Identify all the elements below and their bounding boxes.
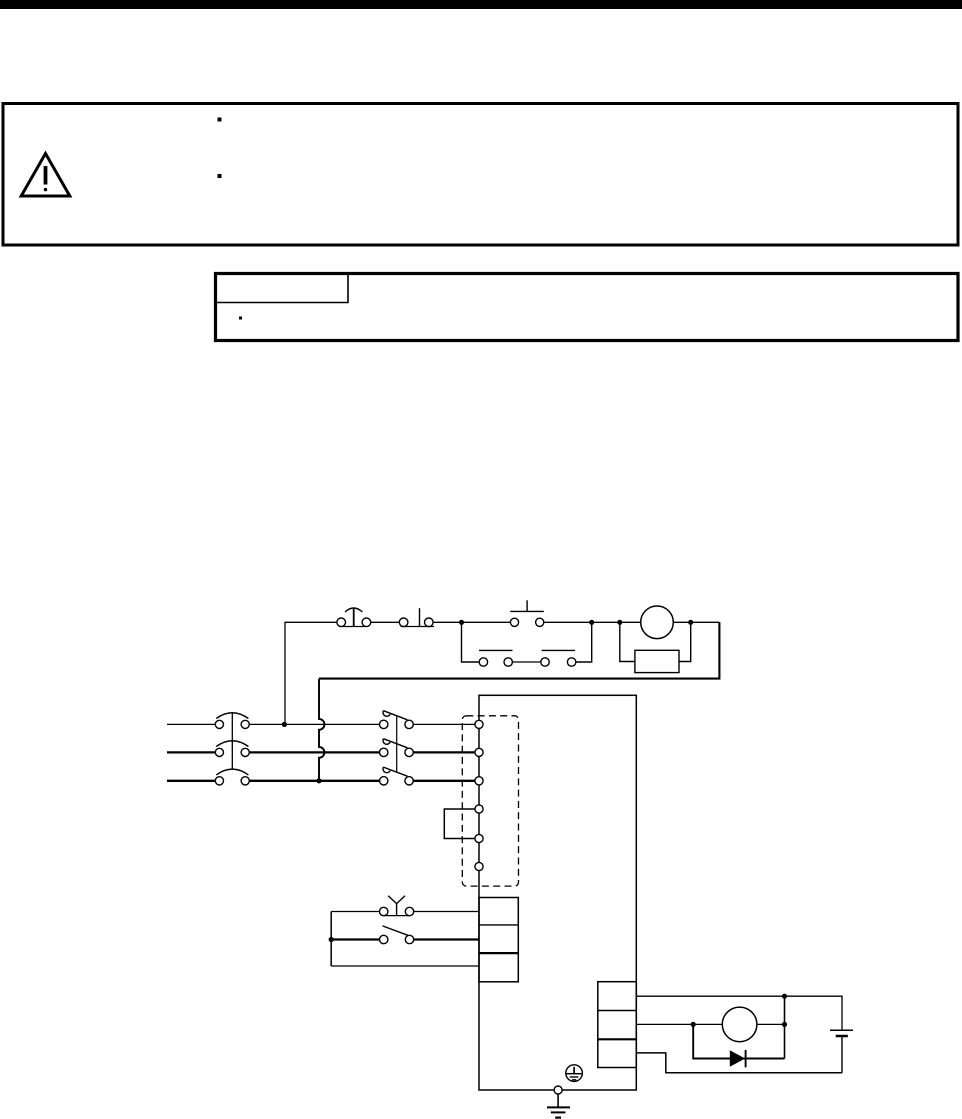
PE symbol [566, 1065, 583, 1082]
surge absorber box [635, 650, 679, 672]
wire: right junction vertical [784, 996, 786, 1058]
switch forced stop (NC with twist-release Y) [331, 896, 479, 916]
pushbutton SW3 ON (NO) [510, 600, 544, 626]
node: L3 / return junction [316, 778, 321, 783]
node: motor right junction [782, 1022, 787, 1027]
warning triangle icon [21, 154, 70, 197]
terminal D [475, 834, 483, 842]
warning bullet 2 [218, 174, 222, 178]
POINT label box [216, 274, 348, 303]
switch EMG (NO) [331, 926, 479, 944]
circuit breaker NFB pole 1 [215, 713, 249, 729]
wire [757, 1023, 785, 1025]
wire: to surge absorber right [679, 622, 691, 661]
servo amplifier box [479, 695, 636, 1090]
phase line L1 [167, 723, 215, 725]
brake motor B [722, 1007, 757, 1042]
header black bar [0, 0, 962, 9]
warning box frame [3, 104, 958, 246]
contactor MC pole 3 [380, 767, 414, 785]
node: motor left junction [691, 1022, 696, 1027]
terminal L1 [475, 720, 483, 728]
contactor MC pole 2 [380, 739, 414, 757]
wire: diode branch [693, 1024, 784, 1058]
node: parallel branch left junction [459, 620, 464, 625]
node: parallel branch right junction [589, 620, 594, 625]
coil MC [641, 606, 674, 639]
node: EMG junction [329, 937, 334, 942]
node: L1 / control tap [282, 722, 287, 727]
node: surge absorber left junction [617, 620, 622, 625]
warning bullet 1 [218, 118, 222, 122]
wire [433, 621, 510, 623]
dashed terminal box [462, 716, 518, 886]
wire: brake common [636, 1053, 842, 1073]
wire: control return to L3 [319, 622, 719, 678]
ground terminal [554, 1086, 562, 1094]
phase line L3 [167, 780, 215, 782]
contactor MC pole 1 [380, 711, 414, 729]
connector block CN1B (brake) [598, 982, 637, 1068]
pushbutton SW2 OFF (NC) [399, 608, 434, 626]
wire: common return to block [331, 965, 479, 967]
wire: to surge absorber left [620, 622, 635, 661]
MC mechanical link [396, 716, 398, 773]
POINT bullet [239, 317, 242, 320]
wire: external switch common vertical [330, 912, 332, 967]
P-D jumper bar [444, 809, 475, 839]
NFB mechanical link [231, 712, 233, 768]
wire: brake + to battery [636, 996, 842, 1030]
wire: return drop with hops over L1 L2 to L3 [319, 679, 324, 781]
connector block CN1 [479, 898, 518, 982]
wire [673, 621, 719, 623]
terminal L2 [475, 748, 483, 756]
terminal P [475, 805, 483, 813]
circuit breaker NFB pole 2 [215, 741, 249, 757]
wire: brake output [636, 1023, 722, 1025]
diode D1 [730, 1050, 746, 1067]
earth ground [547, 1094, 570, 1118]
POINT box frame [216, 274, 959, 341]
relay contact RA parallel branch (self-hold, two NC contacts) [462, 622, 592, 666]
wire [544, 621, 641, 623]
phase line L2 [167, 751, 215, 753]
wire: L1 tap vertical to control circuit [285, 622, 337, 724]
node [782, 994, 787, 999]
battery RA terminal [830, 1030, 853, 1073]
terminal L3 [475, 777, 483, 785]
terminal C [475, 862, 483, 870]
wire [371, 621, 400, 623]
pushbutton SW1 emergency stop (NC mushroom) [337, 608, 371, 627]
circuit breaker NFB pole 3 [215, 769, 249, 785]
node: surge absorber right junction [688, 620, 693, 625]
